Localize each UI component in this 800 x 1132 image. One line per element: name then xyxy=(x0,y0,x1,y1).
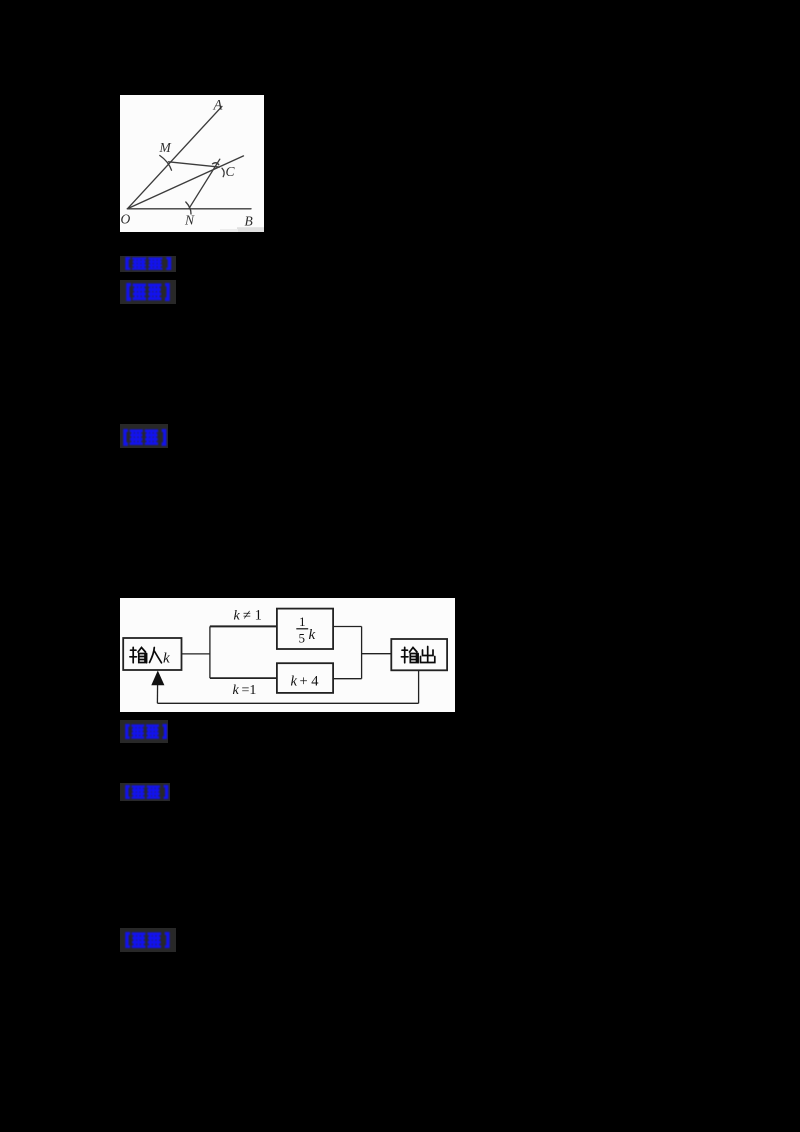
svg-text:C: C xyxy=(225,164,235,179)
ray OB horizontal xyxy=(127,207,251,209)
svg-text:B: B xyxy=(244,213,252,228)
svg-text:k: k xyxy=(290,673,297,689)
svg-text:+ 4: + 4 xyxy=(299,673,319,689)
box k+4 xyxy=(277,663,333,693)
feedback up to input xyxy=(156,682,158,703)
wire input to split xyxy=(181,652,209,654)
ray OC extended xyxy=(127,155,243,208)
segment MC xyxy=(168,161,219,166)
wire to output xyxy=(361,652,391,654)
top box to merge xyxy=(333,625,362,627)
feedback down from output xyxy=(417,670,419,703)
bottom branch xyxy=(210,677,277,679)
svg-text:≠ 1: ≠ 1 xyxy=(243,607,262,623)
svg-text:1: 1 xyxy=(299,614,306,629)
bottom box to merge xyxy=(333,677,362,679)
svg-text:A: A xyxy=(212,97,222,113)
feedback horizontal xyxy=(157,702,418,704)
svg-text:M: M xyxy=(158,139,171,154)
scan artifact patch xyxy=(237,227,264,232)
merge vertical xyxy=(360,626,362,678)
svg-text:5: 5 xyxy=(298,630,305,645)
arrow head xyxy=(151,670,164,685)
arc tick at N xyxy=(185,202,190,214)
svg-text:=1: =1 xyxy=(241,683,256,698)
svg-text:k: k xyxy=(163,650,170,666)
ray OA xyxy=(127,106,221,208)
split vertical xyxy=(209,626,211,678)
box 1/5 k xyxy=(277,608,333,648)
svg-text:N: N xyxy=(184,212,195,227)
arc tick at M xyxy=(159,155,171,170)
glyphs 输入 k xyxy=(130,647,162,663)
svg-text:k: k xyxy=(233,608,240,623)
arc tick at C (below right) xyxy=(222,168,224,177)
svg-text:O: O xyxy=(120,211,130,226)
glyphs 输出 xyxy=(401,646,434,662)
svg-text:k: k xyxy=(308,627,315,643)
box output xyxy=(391,639,447,670)
line NC extended xyxy=(188,159,219,209)
svg-text:k: k xyxy=(232,683,239,698)
top branch xyxy=(210,625,277,627)
box input xyxy=(123,638,181,670)
hook at end of MC xyxy=(212,162,218,164)
